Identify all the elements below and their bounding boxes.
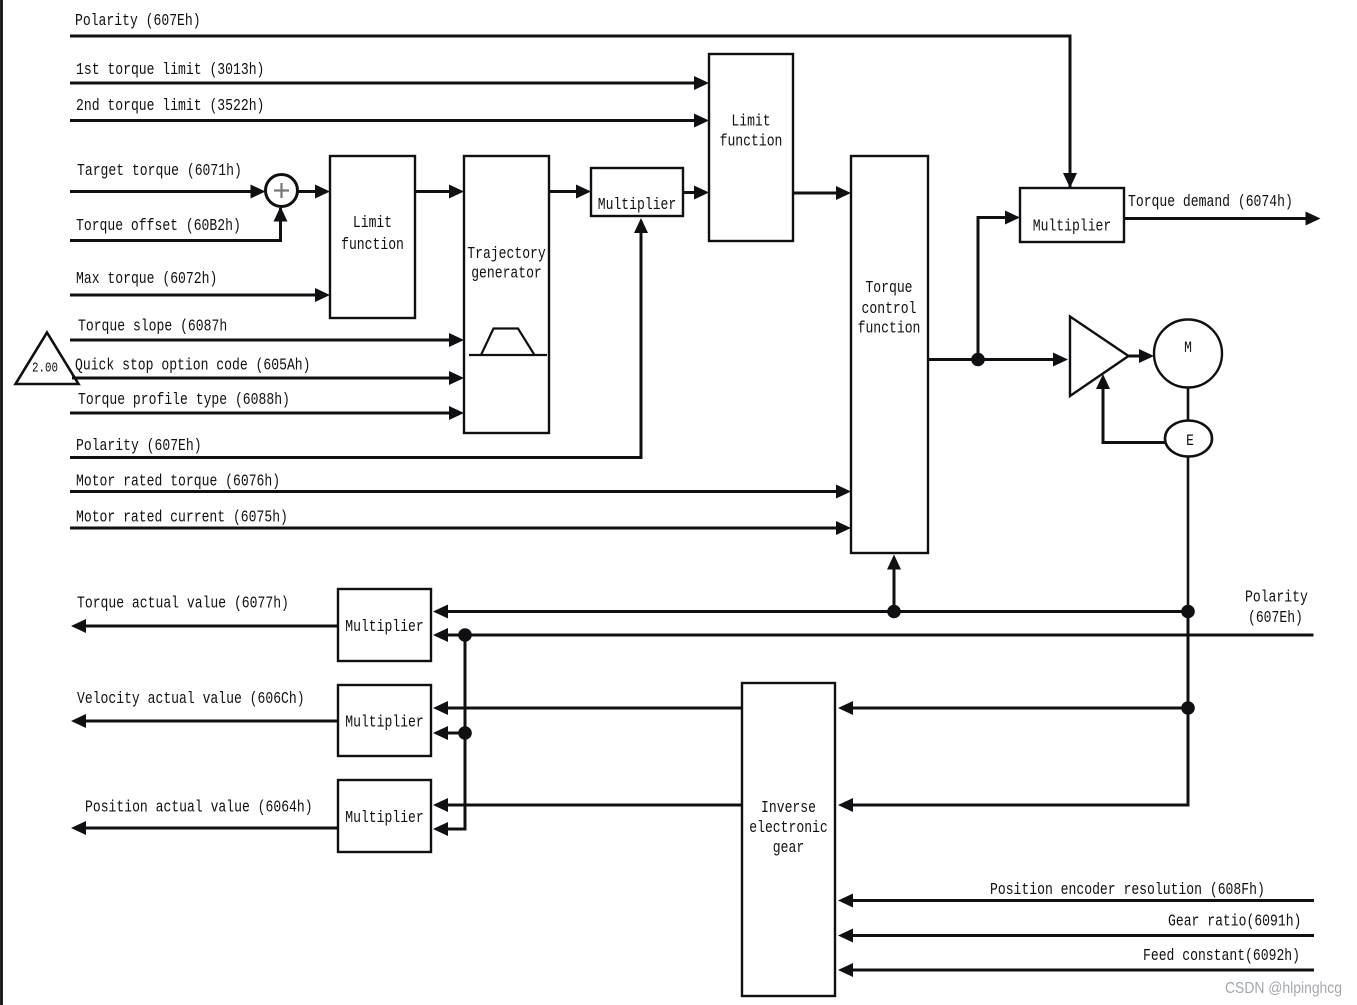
wire position encoder resolution input xyxy=(851,899,1314,902)
multiplier M3 box xyxy=(338,780,431,852)
wire gear output to multiplier M2 xyxy=(445,707,742,710)
svg-text:Motor rated current (6075h): Motor rated current (6075h) xyxy=(76,509,288,528)
encoder E ellipse xyxy=(1165,421,1212,457)
svg-text:generator: generator xyxy=(471,265,542,284)
svg-text:Velocity actual value (606Ch): Velocity actual value (606Ch) xyxy=(77,690,305,709)
wire gear output to multiplier M3 xyxy=(445,804,742,807)
trajectory generator trapezoid glyph xyxy=(469,354,547,356)
wire polarity branch down to multipliers M2 M3 xyxy=(445,635,465,829)
svg-text:Multiplier: Multiplier xyxy=(345,618,424,637)
wire summing junction to limit function U1 xyxy=(298,190,318,193)
wire gear ratio input xyxy=(851,934,1314,937)
page left border xyxy=(0,0,3,1005)
svg-text:Gear ratio(6091h): Gear ratio(6091h) xyxy=(1168,913,1301,932)
wire quick stop option code to trajectory generator U3 xyxy=(72,377,451,380)
svg-text:Feed constant(6092h): Feed constant(6092h) xyxy=(1143,947,1300,966)
node junction encoder column at gear input xyxy=(1181,701,1195,715)
svg-text:Motor rated torque (6076h): Motor rated torque (6076h) xyxy=(76,473,280,492)
svg-text:electronic: electronic xyxy=(749,819,828,838)
torque control function U6 box xyxy=(851,156,928,553)
wire motor M to encoder E xyxy=(1187,388,1190,421)
wire motor rated current to torque control function U6 xyxy=(70,527,838,530)
limit function U1 box xyxy=(330,156,415,318)
svg-text:Max torque (6072h): Max torque (6072h) xyxy=(76,270,217,289)
wire polarity feedback line full width xyxy=(445,634,1314,637)
svg-text:2nd torque limit (3522h): 2nd torque limit (3522h) xyxy=(76,97,264,116)
multiplier U4 box xyxy=(591,168,683,216)
node junction feedback under torque control xyxy=(887,605,901,619)
wire velocity actual value output xyxy=(84,720,338,723)
wire multiplier U4 to limit function U2 xyxy=(683,191,696,194)
wire polarity top: right then down to multiplier U5 xyxy=(70,36,1070,190)
svg-text:Torque slope (6087h: Torque slope (6087h xyxy=(78,318,227,337)
wire max torque to limit function U1 xyxy=(70,294,317,297)
limit function U2 box xyxy=(709,54,793,241)
power amplifier A1 triangle xyxy=(1070,317,1129,397)
wire 2nd torque limit to limit function U2 xyxy=(70,119,696,122)
svg-text:Position actual value (6064h): Position actual value (6064h) xyxy=(85,799,313,818)
multiplier M1 box xyxy=(338,589,431,661)
svg-text:function: function xyxy=(720,133,783,152)
svg-text:Multiplier: Multiplier xyxy=(598,196,677,215)
svg-text:Polarity (607Eh): Polarity (607Eh) xyxy=(75,12,201,31)
svg-text:Polarity: Polarity xyxy=(1245,589,1308,608)
wire torque demand output xyxy=(1124,217,1307,220)
node junction on torque control output xyxy=(971,353,985,367)
wire torque control output to power amplifier xyxy=(928,358,1055,361)
wire feed constant input xyxy=(851,969,1314,972)
wire limit function U1 to trajectory generator U3 xyxy=(415,190,451,193)
svg-text:gear: gear xyxy=(773,839,804,858)
svg-text:function: function xyxy=(858,320,921,339)
node junction polarity branch at M2 xyxy=(458,726,472,740)
svg-text:function: function xyxy=(341,236,404,255)
wire amplifier to motor M xyxy=(1129,355,1142,358)
svg-text:Torque: Torque xyxy=(865,279,912,298)
wire limit function U2 to torque control function U6 xyxy=(793,192,838,195)
trajectory generator U3 box xyxy=(464,156,549,433)
wire encoder down to polarity feedback line xyxy=(1187,457,1190,612)
summing junction S1 (+) xyxy=(266,175,298,207)
svg-text:Limit: Limit xyxy=(353,214,392,233)
svg-text:Position encoder resolution (6: Position encoder resolution (608Fh) xyxy=(990,881,1265,900)
wire motor rated torque to torque control function U6 xyxy=(70,490,838,493)
node junction polarity at x465 xyxy=(458,628,472,642)
wire junction up into multiplier U5 xyxy=(978,218,1007,360)
wire polarity mid: right then up into multiplier U4 xyxy=(70,231,641,458)
wire position actual value output xyxy=(84,827,338,830)
inverse electronic gear U7 box xyxy=(742,683,835,996)
note triangle 2.00 xyxy=(16,333,79,385)
svg-text:E: E xyxy=(1186,432,1194,450)
svg-text:M: M xyxy=(1184,339,1192,357)
svg-text:Torque offset (60B2h): Torque offset (60B2h) xyxy=(76,217,241,236)
wire encoder column into gear top input xyxy=(851,612,1188,709)
svg-text:CSDN @hlpinghcg: CSDN @hlpinghcg xyxy=(1225,980,1342,997)
svg-text:Target torque (6071h): Target torque (6071h) xyxy=(77,162,242,181)
multiplier U5 box xyxy=(1020,188,1124,242)
wire torque slope to trajectory generator U3 xyxy=(70,339,451,342)
svg-text:Multiplier: Multiplier xyxy=(345,809,424,828)
wire polarity branch into multiplier M2 xyxy=(445,732,465,735)
svg-text:2.00: 2.00 xyxy=(32,362,58,377)
svg-text:Torque profile type (6088h): Torque profile type (6088h) xyxy=(78,391,290,410)
wire 1st torque limit to limit function U2 xyxy=(70,82,696,85)
wire junction up into torque control function U6 xyxy=(893,568,896,612)
wire torque offset up into summing junction xyxy=(70,208,281,241)
node junction feedback at encoder column xyxy=(1181,605,1195,619)
svg-text:Multiplier: Multiplier xyxy=(345,714,424,733)
wire torque profile type to trajectory generator U3 xyxy=(70,412,451,415)
svg-text:Multiplier: Multiplier xyxy=(1033,218,1112,237)
svg-text:Polarity (607Eh): Polarity (607Eh) xyxy=(76,437,202,456)
multiplier M2 box xyxy=(338,685,431,756)
motor M circle xyxy=(1154,320,1222,388)
wire target torque to summing junction xyxy=(70,190,253,193)
svg-text:Inverse: Inverse xyxy=(761,799,816,818)
svg-text:control: control xyxy=(862,300,917,319)
svg-text:Torque actual value (6077h): Torque actual value (6077h) xyxy=(77,595,289,614)
svg-text:Trajectory: Trajectory xyxy=(467,245,546,264)
wire encoder column down into gear second input xyxy=(851,708,1188,805)
wire torque actual value output xyxy=(84,625,338,628)
wire feedback line to multiplier M1 (torque actual) xyxy=(445,610,1188,613)
wire trajectory generator U3 to multiplier U4 xyxy=(549,190,578,193)
svg-text:Limit: Limit xyxy=(731,113,770,132)
svg-text:1st torque limit (3013h): 1st torque limit (3013h) xyxy=(76,61,264,80)
svg-text:Quick stop option code (605Ah): Quick stop option code (605Ah) xyxy=(75,357,311,376)
wire encoder feedback up into amplifier xyxy=(1103,389,1165,443)
svg-text:(607Eh): (607Eh) xyxy=(1248,609,1303,628)
svg-text:Torque demand (6074h): Torque demand (6074h) xyxy=(1128,193,1293,212)
